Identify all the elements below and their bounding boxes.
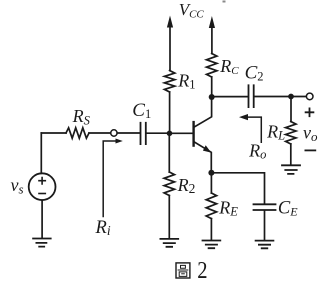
wire vs bottom to ground bbox=[41, 200, 43, 238]
wire C1 to base junction bbox=[147, 132, 170, 134]
wire C2 to output node bbox=[255, 96, 291, 98]
VCC arrow R1 branch bbox=[169, 27, 171, 71]
resistor RE bbox=[206, 193, 216, 219]
caption figure glyph (CJK) bbox=[176, 263, 190, 278]
wire output node to terminal bbox=[291, 96, 306, 98]
Ri arrow bbox=[103, 141, 118, 217]
wire input node to C1 bbox=[117, 132, 139, 134]
wire base junction to R2 bbox=[168, 133, 170, 172]
ground under vs bbox=[33, 239, 51, 247]
capacitor C2 plates bbox=[249, 85, 254, 107]
transistor Q1 collector lead bbox=[195, 97, 212, 127]
input node open circle bbox=[111, 130, 117, 136]
capacitor C1 plates bbox=[141, 123, 146, 144]
transistor Q1 emitter lead bbox=[195, 142, 212, 173]
wire emitter node to RE bbox=[210, 173, 212, 193]
vs minus sign bbox=[39, 193, 45, 195]
ground under R2 bbox=[160, 239, 178, 247]
wire output node to RL bbox=[290, 97, 292, 122]
wire R1 to base junction bbox=[169, 92, 171, 133]
resistor R2 bbox=[164, 172, 174, 196]
resistor RL bbox=[286, 122, 296, 145]
wire RS to input node bbox=[89, 132, 111, 134]
node dot base junction bbox=[167, 131, 173, 137]
node dot collector bbox=[209, 94, 215, 100]
Ro arrow bbox=[244, 117, 262, 142]
wire base junction to transistor base bbox=[170, 132, 193, 134]
wire collector node to C2 bbox=[212, 96, 248, 98]
vs plus sign bbox=[39, 178, 45, 184]
resistor RS bbox=[66, 128, 89, 138]
svg-text:2: 2 bbox=[197, 257, 207, 284]
transistor Q1 base bar bbox=[192, 122, 194, 146]
output minus sign bbox=[305, 149, 315, 151]
wire RE to ground bbox=[210, 219, 212, 240]
wire vs top vertical bbox=[40, 133, 42, 173]
wire emitter node to CE bbox=[211, 173, 264, 204]
wire RC to collector node bbox=[211, 77, 213, 97]
output plus sign bbox=[306, 108, 314, 116]
ground under RL bbox=[282, 165, 300, 174]
VCC arrow RC branch bbox=[211, 28, 213, 54]
ground under CE bbox=[256, 241, 274, 249]
wire R2 to ground bbox=[168, 196, 170, 239]
wire RL to ground bbox=[290, 144, 292, 165]
voltage source VS circle bbox=[29, 173, 56, 200]
output terminal open circle bbox=[306, 93, 313, 100]
capacitor CE plates bbox=[254, 204, 276, 210]
speck artifact bbox=[223, 1, 226, 3]
node dot output bbox=[288, 94, 294, 100]
node dot emitter bbox=[208, 170, 214, 176]
transistor Q1 emitter arrowhead bbox=[203, 145, 211, 152]
wire left horizontal to RS bbox=[41, 132, 66, 134]
resistor R1 bbox=[164, 71, 174, 93]
wire CE to ground bbox=[264, 211, 266, 240]
resistor RC bbox=[207, 54, 217, 78]
ground under RE bbox=[203, 241, 221, 249]
